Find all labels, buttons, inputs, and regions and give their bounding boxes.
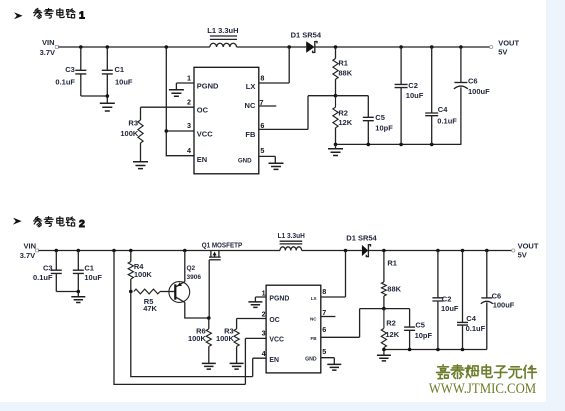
resistor R4 100K circuit 2: [128, 251, 152, 292]
svg-text:12K: 12K: [385, 330, 399, 339]
svg-text:VOUT: VOUT: [518, 242, 539, 251]
ground at PGND circuit 2: [248, 302, 262, 308]
resistor R1 88K circuit 1: [333, 47, 353, 96]
svg-text:VOUT: VOUT: [498, 38, 519, 47]
svg-text:R2: R2: [338, 109, 348, 118]
wire GND pin 5 to ground c2: [321, 358, 335, 365]
ground below R3 circuit 2: [230, 363, 244, 369]
ground below rail circuit 2: [377, 350, 391, 361]
resistor R2 12K circuit 2: [381, 309, 399, 350]
node junction R4 R5 base c2: [129, 290, 133, 294]
pin 8 number c2: [322, 287, 326, 296]
page background right strip: [546, 0, 565, 411]
svg-text:PGND: PGND: [197, 82, 219, 91]
svg-text:Q1 MOSFETP: Q1 MOSFETP: [202, 243, 243, 250]
node junction C4 top: [430, 45, 434, 49]
node junction LX riser top c2: [344, 249, 348, 253]
svg-text:C5: C5: [375, 113, 385, 122]
svg-text:3.7V: 3.7V: [40, 48, 55, 57]
wire Q2 collector to gate node: [185, 302, 209, 318]
pin 8 number: [260, 73, 264, 82]
wire NC pin stub c2: [321, 316, 336, 318]
node rail junction C2 c2: [436, 348, 440, 352]
svg-text:5: 5: [322, 347, 326, 356]
resistor R2 12K circuit 1: [333, 96, 353, 145]
capacitor C2 10uF circuit 2: [432, 251, 459, 350]
svg-text:GND: GND: [238, 158, 252, 165]
svg-text:FB: FB: [310, 336, 317, 341]
wire OC to R3: [141, 107, 195, 120]
capacitor C1 circuit 2: [73, 251, 103, 297]
svg-text:WWW.JTMIC.COM: WWW.JTMIC.COM: [429, 381, 537, 397]
node junction C2 top c2: [436, 249, 440, 253]
node rail junction R2 c2: [382, 348, 386, 352]
svg-text:3906: 3906: [187, 274, 202, 281]
ground below rail circuit 1: [328, 144, 343, 155]
svg-text:4: 4: [187, 146, 191, 155]
svg-text:88K: 88K: [387, 285, 401, 294]
svg-text:R1: R1: [387, 258, 397, 267]
svg-text:100uF: 100uF: [493, 301, 515, 310]
svg-text:C1: C1: [84, 263, 94, 272]
node junction C4 top c2: [461, 249, 465, 253]
pin 2 number: [187, 97, 191, 106]
wire NC pin 7 stub: [259, 105, 277, 107]
node junction C2 top: [399, 45, 403, 49]
svg-text:FB: FB: [245, 130, 256, 139]
svg-text:2: 2: [187, 97, 191, 106]
capacitor C5 10pF circuit 2: [404, 321, 432, 350]
wire GND pin 5 to ground: [259, 156, 276, 163]
svg-text:C4: C4: [466, 314, 476, 323]
ground at PGND circuit 1: [169, 90, 184, 97]
wire PGND pin to ground c2: [255, 297, 266, 302]
svg-text:100uF: 100uF: [468, 87, 490, 96]
node VIN terminal circuit 1: [40, 38, 59, 57]
svg-text:D1 SR54: D1 SR54: [346, 234, 377, 243]
svg-text:C2: C2: [408, 81, 418, 90]
diode D1 SR54 circuit 2: [346, 234, 377, 258]
wire FB pin 6 to divider: [259, 96, 336, 130]
svg-text:3: 3: [262, 328, 266, 337]
svg-text:0.1uF: 0.1uF: [33, 273, 53, 282]
node junction C6 top: [459, 45, 463, 49]
svg-text:47K: 47K: [143, 304, 157, 313]
node rail junction C4: [430, 143, 434, 147]
svg-text:GND: GND: [305, 357, 317, 363]
node FB junction circuit 1: [334, 94, 338, 98]
wire output ground rail circuit 1: [336, 143, 462, 145]
svg-text:C2: C2: [442, 294, 452, 303]
ground below C1: [100, 103, 115, 111]
svg-text:10pF: 10pF: [415, 331, 433, 340]
wire VIN rail circuit 2: [39, 250, 513, 252]
pin 3 number c2: [262, 328, 266, 337]
title text 参考电路 2: [34, 217, 85, 230]
ground below C1 c2: [71, 297, 85, 303]
pin 2 number c2: [262, 309, 266, 318]
watermark WWW.JTMIC.COM: [429, 381, 537, 397]
pin 7 number: [260, 98, 264, 107]
svg-text:LX: LX: [246, 82, 256, 91]
node junction C1 top c2: [77, 249, 81, 253]
resistor R3 100K circuit 2: [216, 319, 239, 364]
node junction gate R6: [207, 316, 211, 320]
svg-text:8: 8: [260, 73, 264, 82]
pin 6 number c2: [322, 325, 326, 334]
title bullet arrow 2: [13, 218, 22, 225]
ground below R3: [133, 162, 148, 169]
capacitor C1 circuit 1: [102, 47, 133, 103]
svg-text:2: 2: [79, 218, 85, 230]
capacitor C4 0.1uF circuit 1: [425, 47, 457, 144]
node junction R1 top c2: [382, 249, 386, 253]
svg-text:10uF: 10uF: [115, 77, 133, 86]
wire R5 to Q2 base: [160, 291, 175, 293]
title bullet arrow 1: [14, 12, 23, 19]
node VOUT terminal circuit 2: [512, 242, 539, 260]
svg-text:1: 1: [187, 73, 191, 82]
svg-text:C3: C3: [65, 65, 75, 74]
capacitor C5 10pF circuit 1: [363, 113, 393, 144]
ground below R6: [202, 363, 216, 369]
wire VIN rail circuit 1: [58, 46, 490, 48]
svg-text:6: 6: [322, 325, 326, 334]
node junction Q2 emitter top c2: [183, 249, 187, 253]
svg-text:12K: 12K: [338, 118, 352, 127]
node rail junction C5: [367, 143, 371, 147]
svg-text:0.1uF: 0.1uF: [55, 77, 75, 86]
node junction C6 top c2: [485, 249, 489, 253]
svg-text:EN: EN: [197, 155, 207, 164]
node junction C3 top c2: [55, 249, 59, 253]
node rail junction C5 c2: [408, 348, 412, 352]
node VOUT terminal circuit 1: [490, 38, 520, 56]
node rail junction C2: [399, 143, 403, 147]
inductor L1 circuit 2: [278, 233, 305, 250]
svg-text:0.1uF: 0.1uF: [437, 116, 457, 125]
node rail junction R2: [334, 143, 338, 147]
resistor R3 100K circuit 1: [120, 119, 143, 162]
capacitor C2 10uF circuit 1: [395, 47, 424, 144]
svg-text:1: 1: [79, 10, 85, 22]
resistor R5 47K circuit 2: [134, 289, 160, 313]
svg-text:100K: 100K: [134, 270, 153, 279]
resistor R6 100K circuit 2: [188, 318, 211, 363]
svg-text:10pF: 10pF: [375, 123, 393, 132]
svg-text:1: 1: [262, 288, 266, 297]
node junction LX riser top: [287, 45, 291, 49]
svg-text:R1: R1: [338, 59, 348, 68]
capacitor C6 100uF circuit 2: [481, 251, 515, 350]
svg-text:C5: C5: [415, 321, 425, 330]
wire C3 to C1 bottom join: [81, 94, 109, 98]
wire LX pin to rail c2: [321, 251, 346, 298]
svg-text:C1: C1: [115, 65, 125, 74]
svg-text:C4: C4: [438, 105, 448, 114]
transistor Q1 MOSFETP: [202, 243, 243, 260]
pin 5 number c2: [322, 347, 326, 356]
svg-text:3.7V: 3.7V: [20, 251, 35, 260]
watermark 嘉泰姆电子元件: [437, 365, 537, 379]
svg-text:L1 3.3uH: L1 3.3uH: [207, 26, 238, 35]
node VIN terminal circuit 2: [20, 242, 39, 261]
svg-text:VCC: VCC: [269, 336, 284, 343]
svg-text:10uF: 10uF: [441, 304, 459, 313]
svg-text:0.1uF: 0.1uF: [466, 324, 486, 333]
svg-text:88K: 88K: [338, 69, 352, 78]
wire Q1 gate riser: [208, 260, 210, 318]
capacitor C4 0.1uF circuit 2: [457, 251, 486, 350]
transistor Q2 3906 PNP: [169, 265, 201, 302]
svg-text:100K: 100K: [188, 334, 207, 343]
op-amp U2 IC box circuit 2: [266, 285, 321, 373]
pin 7 number c2: [322, 308, 326, 317]
svg-text:C6: C6: [492, 291, 502, 300]
node rail junction C4 c2: [461, 348, 465, 352]
wire VIN to VCC and EN riser: [165, 47, 195, 156]
wire output ground rail circuit 2: [384, 349, 487, 351]
svg-text:VCC: VCC: [197, 129, 213, 138]
wire C3 to C1 bottom join c2: [56, 290, 80, 294]
pin 4 number c2: [262, 349, 266, 358]
svg-text:5: 5: [260, 146, 264, 155]
svg-text:OC: OC: [197, 106, 209, 115]
svg-text:LX: LX: [311, 296, 318, 301]
wire OC pin to R3 c2: [237, 318, 267, 320]
pin 5 number: [260, 146, 264, 155]
pin 6 number: [260, 121, 264, 130]
svg-text:100K: 100K: [120, 129, 139, 138]
wire FB pin to divider c2: [321, 309, 384, 338]
svg-text:2: 2: [262, 309, 266, 318]
svg-text:3: 3: [187, 121, 191, 130]
svg-text:4: 4: [262, 349, 266, 358]
wire FB node to C5 c2: [384, 309, 410, 327]
svg-text:VIN: VIN: [42, 38, 55, 47]
resistor R1 88K circuit 2: [382, 251, 402, 309]
wire inner loop base node to EN c2: [131, 292, 266, 377]
svg-text:OC: OC: [269, 317, 279, 324]
svg-text:L1 3.3uH: L1 3.3uH: [278, 233, 305, 240]
svg-text:10uF: 10uF: [406, 91, 424, 100]
svg-text:NC: NC: [310, 316, 317, 321]
diode D1 SR54 circuit 1: [291, 31, 322, 53]
title text 参考电路 1: [34, 8, 85, 21]
pin 4 number: [187, 146, 191, 155]
op-amp U1 IC box circuit 1: [194, 67, 259, 174]
node junction C3 top: [79, 45, 83, 49]
svg-text:C3: C3: [43, 263, 53, 272]
svg-text:PGND: PGND: [269, 295, 289, 302]
svg-text:8: 8: [322, 287, 326, 296]
wire PGND pin to ground: [176, 83, 194, 90]
wire LX pin 8 to top rail: [259, 47, 289, 83]
node junction C1 top: [106, 45, 110, 49]
node junction R4 top c2: [129, 249, 133, 253]
node junction R1 top: [334, 45, 338, 49]
svg-text:R2: R2: [386, 319, 396, 328]
svg-text:5V: 5V: [518, 250, 527, 259]
node FB junction circuit 2: [382, 307, 386, 311]
pin 1 number c2: [262, 288, 266, 297]
node junction VCC riser top: [165, 45, 169, 49]
svg-text:EN: EN: [269, 357, 279, 364]
svg-text:VIN: VIN: [23, 242, 36, 251]
svg-text:R3: R3: [128, 119, 138, 128]
svg-text:5V: 5V: [498, 48, 507, 57]
ground at pin 5 circuit 1: [269, 163, 284, 169]
pin 1 number: [187, 73, 191, 82]
svg-text:100K: 100K: [216, 334, 235, 343]
ground at pin 5 circuit 2: [327, 364, 341, 370]
capacitor C3 circuit 2: [33, 251, 62, 292]
pin 3 number: [187, 121, 191, 130]
inductor L1 circuit 1: [207, 26, 238, 47]
node junction VCC loop top c2: [112, 249, 116, 253]
svg-text:10uF: 10uF: [84, 273, 102, 282]
svg-text:D1 SR54: D1 SR54: [291, 31, 322, 40]
wire Q2 emitter to rail: [184, 251, 186, 282]
svg-text:Q2: Q2: [187, 265, 196, 272]
wire FB node to C5: [336, 96, 369, 118]
capacitor C3 circuit 1: [55, 47, 86, 96]
svg-text:C6: C6: [468, 77, 478, 86]
capacitor C6 100uF circuit 1: [454, 47, 490, 144]
wire VIN outer loop to VCC c2: [114, 251, 266, 385]
svg-text:NC: NC: [245, 101, 256, 110]
page background bottom strip: [0, 402, 565, 411]
